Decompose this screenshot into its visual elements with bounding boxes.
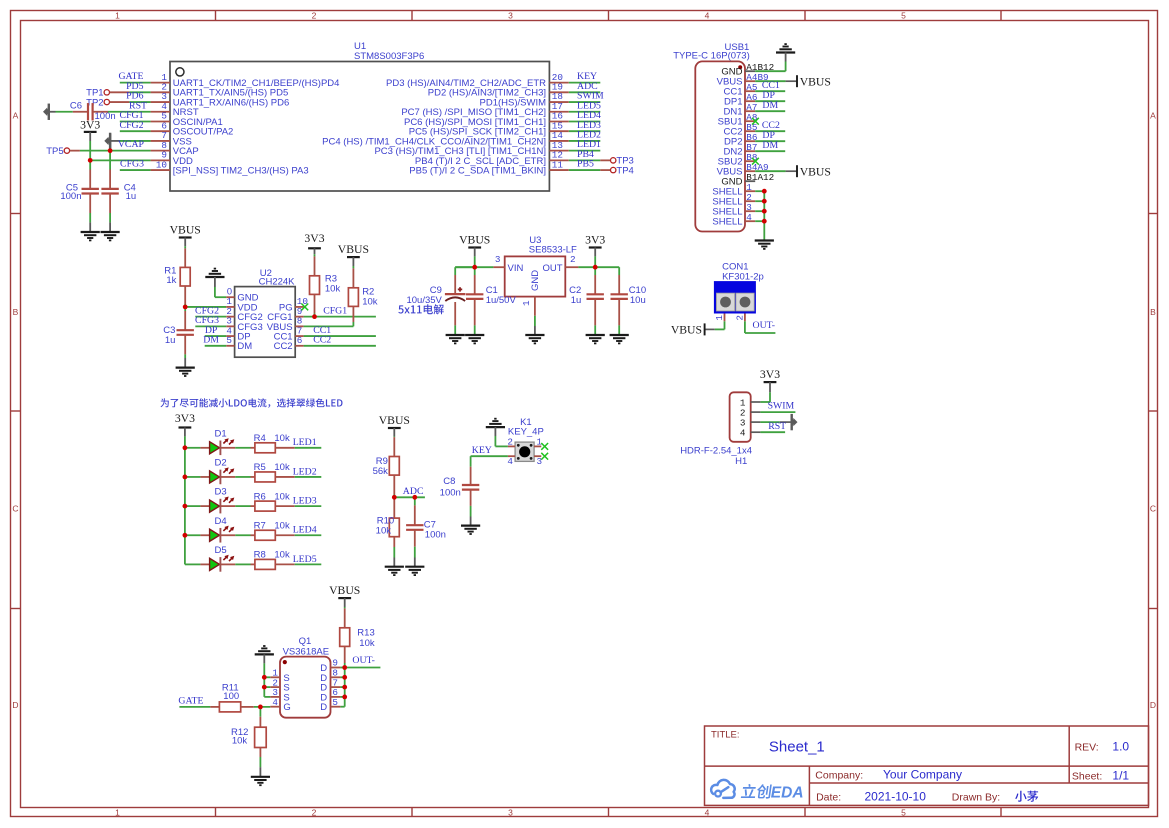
U1 pin 12 stub (549, 159, 568, 161)
svg-text:OUT-: OUT- (352, 655, 375, 666)
svg-text:VS3618AE: VS3618AE (283, 647, 329, 658)
wire U2 pin6 CC2 (304, 345, 376, 347)
U1 pin 6 stub (151, 130, 170, 132)
ground below C1 (474, 334, 476, 335)
junction 3V3 C2 (593, 265, 598, 270)
svg-text:R8: R8 (254, 550, 266, 561)
wire rail to LED D3 (185, 505, 201, 507)
svg-text:CC2: CC2 (313, 335, 331, 346)
svg-text:CFG2: CFG2 (120, 120, 144, 131)
resistor R10 (393, 497, 395, 498)
svg-text:H1: H1 (735, 456, 747, 467)
net label SWIM wire at U1 pin 18 (569, 101, 601, 103)
junction Q1 source pin 2 (262, 685, 267, 690)
svg-text:Company:: Company: (815, 770, 863, 782)
svg-text:VCAP: VCAP (118, 139, 145, 150)
svg-text:LED2: LED2 (293, 466, 317, 477)
ground below U3 (525, 334, 544, 336)
wire Q1 pin 8 to drain bus (340, 676, 344, 678)
USB1 pin B1A12 stub (745, 180, 755, 182)
svg-text:SWIM: SWIM (768, 401, 795, 412)
U1 pin 20 stub (549, 82, 568, 84)
svg-text:VBUS: VBUS (170, 223, 201, 236)
ground below C9 (454, 334, 456, 335)
svg-text:2: 2 (507, 436, 513, 447)
ground flag at H1 pin3 (791, 414, 798, 430)
capacitor C4 (109, 151, 111, 170)
wire 3V3 down to VDD junction (89, 141, 91, 160)
svg-text:1u: 1u (126, 191, 137, 202)
svg-text:1u: 1u (571, 295, 582, 306)
svg-text:STM8S003F3P6: STM8S003F3P6 (354, 51, 424, 62)
svg-text:D: D (320, 702, 327, 713)
svg-text:TYPE-C 16P(073): TYPE-C 16P(073) (673, 51, 750, 62)
junction LED rail row 1 (183, 445, 188, 450)
svg-text:1: 1 (521, 300, 532, 306)
svg-text:DM: DM (203, 335, 219, 346)
wire CFG1 to U1 pin5 (120, 120, 151, 122)
svg-text:B: B (1150, 307, 1156, 317)
H1 pin 2 (751, 411, 761, 413)
ground below C5 (89, 222, 91, 232)
USB1 pin 2 stub (745, 200, 755, 202)
K1 pin 2 (508, 445, 515, 447)
svg-text:4: 4 (740, 428, 746, 439)
capacitor C1 (474, 267, 476, 275)
net label DM at USB1 B7 (755, 150, 785, 152)
svg-text:1: 1 (115, 10, 120, 20)
wire Q1 source pin 3 (264, 696, 270, 698)
wire ground to K1 pin2 (494, 436, 496, 446)
svg-text:Your Company: Your Company (883, 768, 962, 782)
wire D5 to R8 (235, 563, 250, 565)
U1 pin 15 stub (549, 130, 568, 132)
svg-text:DM: DM (762, 100, 778, 111)
wire CFG2 to U1 pin6 (120, 130, 151, 132)
wire C6 to U1 pin4 NRST (108, 111, 151, 113)
EasyEDA logo (711, 780, 735, 798)
U1 pin 14 stub (549, 140, 568, 142)
svg-text:100n: 100n (440, 487, 461, 498)
svg-text:VIN: VIN (508, 263, 524, 274)
capacitor C5 (89, 160, 91, 169)
svg-text:3V3: 3V3 (304, 232, 324, 245)
junction LED rail row 4 (183, 533, 188, 538)
svg-text:4: 4 (272, 697, 278, 708)
svg-text:A: A (13, 111, 19, 121)
svg-text:LED1: LED1 (293, 437, 317, 448)
svg-text:LED3: LED3 (293, 496, 317, 507)
U2 body (235, 287, 296, 358)
svg-text:3V3: 3V3 (760, 368, 780, 381)
wire TP1 to U1 pin2 (129, 91, 150, 93)
wire rail to LED D2 (185, 476, 201, 478)
svg-text:D1: D1 (215, 428, 227, 439)
USB1 pin 4 stub (745, 220, 755, 222)
wire USB1 SHELL 1 (755, 190, 764, 192)
ground below C2 (594, 334, 596, 335)
wire R11 to Q1 gate (254, 706, 270, 708)
wire 3V3 to H1 pin1 (769, 392, 771, 402)
svg-text:ADC: ADC (403, 486, 424, 497)
wire DP to U2 pin4 (205, 335, 227, 337)
svg-text:56k: 56k (373, 466, 389, 477)
USB1 pin B4A9 stub (745, 170, 755, 172)
wire D2 to R5 (235, 476, 250, 478)
header H1 body (730, 392, 751, 442)
U3 pin 3 VIN (493, 266, 504, 268)
H1 pin 3 (751, 421, 761, 423)
U1 pin 3 stub (151, 101, 170, 103)
U2 pin 5 stub (226, 345, 234, 347)
Q1 pin 7 stub (331, 686, 341, 688)
K1 pin 3 (534, 455, 541, 457)
junction LED rail row 3 (183, 504, 188, 509)
wire GATE to R11 (179, 706, 210, 708)
wire SHELL bus (763, 191, 765, 240)
junction SHELL 4 (762, 219, 767, 224)
U1 pin 2 stub (151, 91, 170, 93)
svg-text:VBUS: VBUS (338, 243, 369, 256)
testpoint TP3 (600, 159, 610, 161)
svg-text:5: 5 (901, 807, 906, 817)
ground above K1 (486, 426, 505, 428)
junction R1 C3 VDD (183, 305, 188, 310)
net label LED4 wire at U1 pin 16 (569, 120, 601, 122)
wire USB1 SHELL 3 (755, 210, 764, 212)
svg-text:2: 2 (735, 315, 746, 321)
U1 pin 17 stub (549, 111, 568, 113)
wire U2 pin7 CC1 (304, 335, 376, 337)
svg-text:4: 4 (705, 807, 710, 817)
junction Q1 drain pin 6 (342, 695, 347, 700)
svg-text:1: 1 (115, 807, 120, 817)
svg-text:3V3: 3V3 (80, 119, 100, 132)
svg-text:C8: C8 (443, 476, 455, 487)
svg-text:OUT: OUT (542, 263, 562, 274)
net label LED2 wire at U1 pin 14 (569, 140, 601, 142)
junction VBUS C1 (472, 265, 477, 270)
wire VBUS rail to U3 VIN (455, 266, 493, 268)
wire D3 to R6 (235, 505, 250, 507)
U2 pin 10 stub (295, 306, 303, 308)
capacitor C2 (594, 267, 596, 275)
no-connect X at K1 pin3 (541, 453, 548, 460)
U3 pin 1 GND (534, 297, 536, 316)
svg-text:TITLE:: TITLE: (711, 730, 740, 741)
wire 3V3 rail to U1 pin9 VDD (90, 159, 150, 161)
wire KEY down to C8 (470, 456, 472, 467)
svg-text:4: 4 (705, 10, 710, 20)
Q1 pin 8 stub (331, 676, 341, 678)
svg-text:CC2: CC2 (274, 341, 293, 352)
svg-text:HDR-F-2.54_1x4: HDR-F-2.54_1x4 (680, 445, 752, 456)
svg-text:2021-10-10: 2021-10-10 (865, 790, 927, 804)
USB1 pin B8 stub (745, 160, 755, 162)
USB1 pin 3 stub (745, 210, 755, 212)
svg-text:Sheet_1: Sheet_1 (769, 739, 825, 756)
svg-text:TP5: TP5 (46, 146, 63, 157)
U2 pin 2 stub (226, 316, 234, 318)
resistor R13 (344, 607, 346, 608)
wire Q1 source pin 1 (264, 676, 270, 678)
svg-text:10k: 10k (359, 638, 375, 649)
net label DP at USB1 A6 (755, 100, 785, 102)
resistor R1 (184, 246, 186, 248)
svg-text:1k: 1k (166, 275, 176, 286)
net label DP at USB1 B6 (755, 140, 785, 142)
svg-text:VBUS: VBUS (671, 324, 702, 337)
wire ADC net (394, 496, 425, 498)
svg-text:B: B (13, 307, 19, 317)
LED D1 (200, 447, 209, 449)
svg-text:3: 3 (495, 254, 501, 265)
net label PB5 wire at U1 pin 11 (569, 169, 601, 171)
U1 pin 5 stub (151, 120, 170, 122)
wire 3V3 LED rail (184, 436, 186, 564)
U2 pin 4 stub (226, 335, 234, 337)
svg-text:10k: 10k (325, 283, 341, 294)
capacitor C3 (184, 307, 186, 311)
svg-text:D: D (1150, 700, 1156, 710)
svg-text:10k: 10k (274, 462, 290, 473)
svg-text:[SPI_NSS] TIM2_CH3/(HS) PA3: [SPI_NSS] TIM2_CH3/(HS) PA3 (173, 165, 309, 176)
svg-text:D2: D2 (215, 458, 227, 469)
svg-text:C: C (1150, 504, 1156, 514)
net label DM at USB1 A7 (755, 110, 785, 112)
pushbutton K1 body (515, 442, 534, 461)
resistor R9 (393, 435, 395, 438)
svg-text:10k: 10k (376, 526, 392, 537)
svg-text:4: 4 (746, 212, 752, 223)
svg-text:R13: R13 (357, 627, 374, 638)
resistor R4 (254, 447, 256, 449)
svg-text:10k: 10k (274, 433, 290, 444)
U1 pin 18 stub (549, 101, 568, 103)
no-connect X at K1 pin1 (541, 443, 548, 450)
svg-text:LED5: LED5 (293, 554, 317, 565)
junction LED rail row 2 (183, 475, 188, 480)
svg-text:D: D (12, 700, 18, 710)
power flag VBUS at USB1 A4B9 (755, 80, 785, 82)
junction R9 R10 ADC (392, 495, 397, 500)
svg-text:DM: DM (762, 140, 778, 151)
CON1 pin 1 (724, 314, 726, 322)
resistor R11 (210, 706, 219, 708)
U2 pin 8 stub (295, 325, 303, 327)
svg-text:Date:: Date: (816, 792, 841, 804)
USB1 pin B6 stub (745, 140, 755, 142)
junction gate R12 (258, 705, 263, 710)
svg-text:R5: R5 (254, 462, 266, 473)
ground below R12 (259, 767, 261, 777)
net label KEY wire at U1 pin 20 (569, 82, 601, 84)
H1 pin 4 (751, 431, 761, 433)
capacitor C10 (618, 267, 620, 275)
wire Q1 pin 5 to drain bus (340, 706, 344, 708)
wire CFG2 to U2 pin2 (195, 316, 226, 318)
wire OUT- net (345, 667, 381, 669)
resistor R12 (259, 707, 261, 717)
net label OUT- at CON1 (744, 321, 746, 333)
svg-text:D3: D3 (215, 487, 227, 498)
svg-text:10: 10 (156, 159, 167, 170)
resistor R6 (254, 505, 256, 507)
ground below R10 (393, 558, 395, 567)
net label LED5 wire at U1 pin 17 (569, 111, 601, 113)
svg-text:2: 2 (570, 254, 576, 265)
wire rail to LED D1 (185, 447, 201, 449)
svg-text:Q1: Q1 (299, 636, 312, 647)
svg-text:3: 3 (508, 10, 513, 20)
wire Q1 pin 6 to drain bus (340, 696, 344, 698)
svg-text:10k: 10k (274, 491, 290, 502)
USB1 pin A7 stub (745, 110, 755, 112)
wire USB1 SHELL 4 (755, 220, 764, 222)
junction Q1 drain pin 8 (342, 675, 347, 680)
K1 pin 4 (508, 455, 515, 457)
Q1 pin 9 stub (331, 667, 341, 669)
svg-text:Sheet:: Sheet: (1072, 771, 1102, 783)
Q1 pin 4 stub (270, 706, 280, 708)
svg-text:10u/35V: 10u/35V (406, 295, 442, 306)
LED D4 (200, 534, 209, 536)
svg-text:100n: 100n (60, 191, 81, 202)
K1 pin 1 (534, 445, 541, 447)
wire Q1 drain bus (344, 668, 346, 707)
wire R1 junction to U2 VDD (185, 306, 226, 308)
svg-text:3V3: 3V3 (175, 412, 195, 425)
capacitor C6 (73, 111, 88, 113)
wire USB1 GND to ground (785, 62, 787, 72)
wire U2 pin8 VBUS to R2 (304, 325, 354, 327)
net label LED1 wire at U1 pin 13 (569, 150, 601, 152)
H1 pin3 to ground flag (760, 421, 779, 423)
net label SWIM at H1 pin2 (760, 411, 795, 413)
svg-text:D4: D4 (215, 516, 227, 527)
svg-text:OUT-: OUT- (753, 320, 776, 331)
no-connect X at USB1 B8 (752, 158, 759, 165)
U1 pin 19 stub (549, 91, 568, 93)
svg-text:D5: D5 (215, 545, 227, 556)
svg-text:3: 3 (508, 807, 513, 817)
wire KEY to K1 pin4 (471, 455, 508, 457)
junction R3 CFG1 (312, 314, 317, 319)
svg-text:1u/50V: 1u/50V (486, 295, 517, 306)
USB1 pin A6 stub (745, 100, 755, 102)
USB1 pin A8 stub (745, 120, 755, 122)
svg-text:0: 0 (227, 286, 232, 296)
resistor R3 (314, 254, 316, 256)
LED D5 (200, 563, 209, 565)
svg-text:2: 2 (312, 807, 317, 817)
title block (705, 726, 1149, 805)
svg-text:10k: 10k (232, 736, 248, 747)
svg-text:5: 5 (332, 697, 338, 708)
wire D4 to R7 (235, 534, 250, 536)
U1 pin 9 stub (151, 159, 170, 161)
U1 pin 13 stub (549, 150, 568, 152)
C9 note 5x11 electrolytic (398, 304, 444, 314)
wire rail to LED D5 (185, 563, 201, 565)
svg-text:G: G (283, 702, 290, 713)
wire R4 to net LED1 (295, 447, 322, 449)
svg-text:R6: R6 (254, 491, 266, 502)
svg-text:VBUS: VBUS (459, 234, 490, 247)
USB1 pin1 mark dot (738, 65, 742, 69)
ground flag at C6 (43, 104, 50, 120)
ground below C4 (109, 222, 111, 232)
net label CC1 at USB1 A5 (755, 90, 785, 92)
svg-text:10k: 10k (274, 550, 290, 561)
net label PB4 wire at U1 pin 12 (569, 159, 601, 161)
op-amp U1 body (170, 62, 549, 192)
svg-text:R4: R4 (254, 433, 266, 444)
Q1 pin 6 stub (331, 696, 341, 698)
testpoint TP4 (600, 169, 610, 171)
ground above U2 GND pin (205, 276, 224, 278)
svg-text:VBUS: VBUS (329, 584, 360, 597)
wire R5 to net LED2 (295, 476, 322, 478)
title block drawn-by value (1015, 791, 1038, 802)
wire Q1 pin 9 to drain bus (340, 667, 344, 669)
svg-text:A: A (1150, 111, 1156, 121)
Q1 pin 2 stub (270, 686, 280, 688)
wire VSS flag down to VCAP junction (109, 148, 111, 150)
svg-text:VBUS: VBUS (800, 165, 831, 178)
svg-text:5: 5 (226, 335, 232, 346)
svg-text:1/1: 1/1 (1112, 769, 1129, 783)
svg-text:RST: RST (768, 421, 786, 432)
U1 pin 11 stub (549, 169, 568, 171)
net label RST at H1 pin4 (760, 431, 785, 433)
ground below C10 (618, 334, 620, 335)
svg-text:PB5 (T)/I 2 C_SDA [TIM1_BKIN]: PB5 (T)/I 2 C_SDA [TIM1_BKIN] (409, 165, 546, 176)
U1 pin 16 stub (549, 120, 568, 122)
wire GATE to U1 pin1 (120, 82, 151, 84)
USB1 pin B5 stub (745, 130, 755, 132)
wire R8 to net LED5 (295, 563, 322, 565)
U1 pin 1 stub (151, 82, 170, 84)
voltage regulator U3 body (505, 256, 566, 296)
transistor Q1 body (280, 657, 331, 718)
svg-text:3: 3 (537, 456, 543, 467)
ground below C3 (184, 358, 186, 368)
svg-text:REV:: REV: (1075, 741, 1099, 753)
no-connect X at USB1 A8 (752, 118, 759, 125)
svg-text:CFG1: CFG1 (323, 305, 347, 316)
svg-text:10u: 10u (630, 295, 646, 306)
net label ADC wire at U1 pin 19 (569, 91, 601, 93)
Q1 pin 5 stub (331, 706, 341, 708)
svg-text:SHELL: SHELL (712, 217, 742, 228)
U1 pin 4 stub (151, 111, 170, 113)
no-connect X at U2 PG (301, 304, 308, 311)
USB1 pin A5 stub (745, 90, 755, 92)
U1 pin 10 stub (151, 169, 170, 171)
power flag VBUS at CON1 (724, 321, 726, 329)
U1 pin 7 stub (151, 140, 170, 142)
wire ground to C6 (56, 111, 73, 113)
wire DM to U2 pin5 (205, 345, 227, 347)
svg-text:Drawn By:: Drawn By: (952, 792, 1000, 804)
H1 pin 1 (751, 401, 761, 403)
svg-text:TP4: TP4 (616, 165, 633, 176)
Q1 pin 3 stub (270, 696, 280, 698)
ground flag at U1 VSS (104, 133, 111, 149)
resistor R8 (254, 563, 256, 565)
power flag VBUS at USB1 B4A9 (755, 170, 785, 172)
